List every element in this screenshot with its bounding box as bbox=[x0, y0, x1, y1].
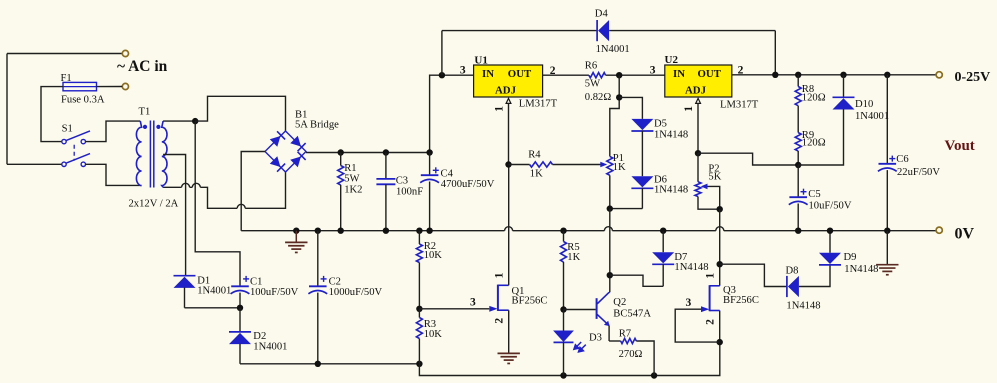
svg-text:R6: R6 bbox=[585, 61, 597, 72]
transformer T1 polarity dot secondary bbox=[156, 125, 160, 129]
bridge rectifier B1 diamond bbox=[265, 131, 306, 172]
svg-text:1N4001: 1N4001 bbox=[855, 111, 889, 122]
svg-text:1N4148: 1N4148 bbox=[654, 185, 688, 196]
junction Q2 base node bbox=[560, 306, 566, 312]
svg-text:4700uF/50V: 4700uF/50V bbox=[441, 179, 495, 190]
junction U1 input / D4 bbox=[439, 72, 445, 78]
svg-text:1K2: 1K2 bbox=[344, 184, 362, 195]
transformer T1 primary winding bbox=[136, 121, 141, 186]
junction D5 branch bbox=[616, 94, 622, 100]
svg-text:OUT: OUT bbox=[508, 68, 532, 80]
svg-text:120Ω: 120Ω bbox=[802, 138, 826, 149]
switch S1 linkage dashed bbox=[73, 145, 75, 161]
wire AC2 to bridge bottom bbox=[245, 172, 285, 208]
svg-text:ADJ: ADJ bbox=[685, 85, 707, 97]
LED D3 arrows bbox=[574, 342, 586, 352]
transistor Q1 JFET bbox=[497, 285, 499, 311]
junction R8 top bbox=[795, 72, 801, 78]
wire node down to C1 feed bbox=[195, 121, 240, 286]
svg-text:D8: D8 bbox=[786, 265, 799, 276]
svg-text:U1: U1 bbox=[474, 54, 487, 66]
svg-text:0.82Ω: 0.82Ω bbox=[585, 92, 612, 103]
diode D6 bbox=[631, 176, 653, 187]
svg-text:2: 2 bbox=[704, 319, 716, 325]
svg-text:1: 1 bbox=[493, 272, 505, 278]
svg-text:1N4001: 1N4001 bbox=[197, 286, 231, 297]
transformer T1 secondary winding bbox=[162, 121, 167, 187]
wire U1 input bbox=[442, 74, 474, 76]
svg-text:1K: 1K bbox=[613, 162, 626, 173]
ground near bridge bbox=[293, 228, 299, 234]
wire D1 to C1 node bbox=[185, 307, 241, 309]
svg-text:1000uF/50V: 1000uF/50V bbox=[329, 287, 383, 298]
wire AC live top bbox=[7, 53, 122, 55]
bridge B1 diode top-right bbox=[290, 136, 306, 152]
wire Q3 gate loop bbox=[675, 309, 720, 342]
switch S1 pole1 bbox=[62, 139, 66, 143]
svg-text:1N4148: 1N4148 bbox=[654, 130, 688, 141]
svg-text:5W: 5W bbox=[344, 173, 359, 184]
svg-text:2x12V / 2A: 2x12V / 2A bbox=[129, 198, 179, 209]
transistor Q2 BC547A bbox=[596, 298, 598, 319]
wire fuse left to S1 bbox=[41, 87, 63, 142]
svg-text:BF256C: BF256C bbox=[512, 296, 548, 307]
svg-text:100nF: 100nF bbox=[396, 187, 423, 198]
transformer T1 core bbox=[149, 121, 151, 188]
potentiometer P1 bbox=[607, 156, 613, 175]
svg-text:OUT: OUT bbox=[698, 68, 722, 80]
wire Q3 drain up bbox=[719, 264, 721, 286]
svg-text:IN: IN bbox=[482, 68, 494, 80]
terminal 0-25V bbox=[936, 72, 942, 78]
wire U2 out to 0-25V terminal bbox=[732, 74, 936, 76]
fuse F1 bbox=[63, 82, 97, 90]
svg-text:R1: R1 bbox=[344, 163, 356, 174]
potentiometer P2 bbox=[695, 182, 701, 197]
capacitor C3 bbox=[385, 153, 387, 179]
wire P1 top staircase to R6 node bbox=[610, 97, 619, 156]
svg-text:10uF/50V: 10uF/50V bbox=[809, 200, 852, 211]
wire left vertical AC bbox=[6, 54, 8, 165]
svg-text:C5: C5 bbox=[808, 189, 820, 200]
svg-text:10K: 10K bbox=[424, 329, 443, 340]
svg-text:~ AC in: ~ AC in bbox=[117, 58, 168, 75]
wire ADJ node to P2 bbox=[697, 153, 699, 182]
wire plus rail bbox=[306, 152, 430, 154]
plus sign C6 bbox=[889, 158, 895, 160]
wire Q1 drain up to ADJ node bbox=[508, 165, 510, 286]
svg-text:LM317T: LM317T bbox=[720, 100, 759, 111]
junction C2 top bbox=[315, 228, 321, 234]
junction C6 top bbox=[884, 72, 890, 78]
junction D10 top bbox=[840, 72, 846, 78]
junction C5 bottom bbox=[795, 228, 801, 234]
capacitor C1 bbox=[231, 285, 249, 287]
resistor R3 bbox=[418, 309, 420, 318]
svg-text:5W: 5W bbox=[585, 78, 600, 89]
resistor R1 bbox=[340, 153, 342, 166]
diode D1 bbox=[174, 275, 196, 277]
junction P2 bottom bbox=[717, 206, 723, 212]
svg-text:D5: D5 bbox=[654, 118, 667, 129]
resistor R2 bbox=[418, 231, 420, 244]
wire ADJ node staircase to R9 bottom bbox=[698, 153, 798, 165]
plus sign C2 bbox=[321, 278, 327, 280]
junction C4 top bbox=[426, 149, 432, 155]
junction R1 top bbox=[338, 149, 344, 155]
wire D8 to D9 bbox=[799, 265, 830, 287]
svg-text:Vout: Vout bbox=[945, 138, 975, 154]
wire 0V rail bbox=[241, 230, 504, 232]
resistor R9 bbox=[795, 133, 801, 151]
junction R9 bottom C5 top bbox=[795, 162, 801, 168]
svg-text:C1: C1 bbox=[250, 277, 262, 288]
wire collector node to D7 staircase bbox=[610, 275, 663, 286]
svg-text:1N4148: 1N4148 bbox=[844, 264, 878, 275]
wire AC neutral bottom to S1 bbox=[7, 163, 62, 165]
wire Q1 gate bbox=[419, 308, 489, 310]
wire secondary bottom with hops bbox=[163, 186, 182, 188]
wire D6 bottom to P1 bottom bbox=[610, 208, 643, 210]
svg-text:S1: S1 bbox=[62, 123, 73, 134]
wire D4 left vertical bbox=[441, 31, 443, 76]
diode D8 bbox=[786, 276, 788, 297]
plus sign C5 bbox=[801, 191, 807, 193]
capacitor C4 bbox=[429, 153, 431, 176]
svg-text:5K: 5K bbox=[708, 171, 721, 182]
svg-text:1N4148: 1N4148 bbox=[674, 262, 708, 273]
resistor R4 bbox=[509, 164, 530, 166]
wire S1 pole1 to T1 primary top bbox=[86, 121, 141, 142]
svg-text:10K: 10K bbox=[424, 250, 443, 261]
svg-text:D9: D9 bbox=[844, 252, 857, 263]
wire D4 line right bbox=[609, 30, 775, 32]
svg-text:C4: C4 bbox=[441, 169, 454, 180]
LED D3 bbox=[563, 310, 565, 331]
junction C1 D1 D2 bbox=[237, 305, 243, 311]
wire U1 out to R6 bbox=[543, 74, 589, 76]
terminal AC in bottom bbox=[122, 83, 128, 89]
junction D9 top bbox=[827, 228, 833, 234]
junction Q3 drain node bbox=[717, 261, 723, 267]
junction D3 bottom bbox=[560, 372, 566, 378]
potentiometer P2 wiper arrow bbox=[701, 184, 708, 190]
svg-text:ADJ: ADJ bbox=[495, 85, 517, 97]
svg-text:IN: IN bbox=[673, 68, 685, 80]
wire P2 node down to Q3 bbox=[719, 209, 721, 264]
junction Q1 gate node bbox=[416, 306, 422, 312]
wire Q2 emitter down to R7 bbox=[608, 326, 610, 341]
svg-text:T1: T1 bbox=[139, 107, 151, 118]
svg-text:3: 3 bbox=[650, 65, 656, 77]
junction D7 top bbox=[660, 228, 666, 234]
wire U1 ADJ down bbox=[508, 104, 510, 165]
svg-text:3: 3 bbox=[470, 297, 476, 309]
junction secondary top node bbox=[192, 118, 198, 124]
junction U2 ADJ node bbox=[695, 150, 701, 156]
diode D2 bbox=[239, 308, 241, 332]
op-amp U1 LM317 box bbox=[474, 65, 543, 97]
svg-text:1N4001: 1N4001 bbox=[253, 341, 287, 352]
svg-text:270Ω: 270Ω bbox=[619, 349, 643, 360]
junction C3 top bbox=[383, 149, 389, 155]
diode D7 bbox=[662, 231, 664, 253]
transformer T1 polarity dot primary bbox=[143, 125, 147, 129]
junction Q2 collector node bbox=[607, 272, 613, 278]
svg-text:3: 3 bbox=[686, 297, 692, 309]
wire Q2 collector up bbox=[608, 291, 611, 293]
junction R5 top bbox=[560, 228, 566, 234]
wire secondary centre tap bbox=[163, 155, 186, 276]
bridge B1 diode bottom-left bbox=[270, 156, 286, 172]
svg-text:R4: R4 bbox=[528, 150, 541, 161]
wire plus rail up to U1 input bbox=[430, 75, 442, 152]
svg-text:1: 1 bbox=[683, 106, 695, 112]
wire U2 ADJ down bbox=[697, 104, 699, 154]
junction R1 bottom bbox=[338, 228, 344, 234]
potentiometer P1 wiper arrow bbox=[600, 162, 607, 168]
svg-text:LM317T: LM317T bbox=[519, 99, 558, 110]
wire Q3 node to D8 bbox=[720, 264, 787, 286]
junction R3 bottom bbox=[416, 361, 422, 367]
wire base node to Q2 bbox=[564, 309, 596, 311]
junction R6 right bbox=[616, 72, 622, 78]
svg-text:Fuse 0.3A: Fuse 0.3A bbox=[61, 95, 105, 106]
pin triangle U1 ADJ bbox=[506, 98, 511, 103]
svg-text:D10: D10 bbox=[855, 99, 873, 110]
junction R2 top bbox=[416, 228, 422, 234]
svg-text:BF256C: BF256C bbox=[723, 295, 759, 306]
resistor R6 bbox=[589, 73, 606, 78]
capacitor C2 bbox=[317, 231, 319, 287]
wire fuse right to terminal bbox=[97, 86, 123, 88]
wire Q3 source down bbox=[719, 311, 721, 343]
pin triangle U2 ADJ bbox=[696, 98, 701, 103]
resistor R5 bbox=[563, 231, 565, 242]
plus sign C1 bbox=[243, 278, 249, 280]
wire bridge minus down to 0V rail bbox=[241, 152, 265, 231]
wire S1 pole2 to T1 primary bottom bbox=[86, 164, 141, 185]
junction P1 D6 collector node bbox=[607, 205, 613, 211]
junction C6 bottom 0V bbox=[884, 228, 890, 234]
svg-text:2: 2 bbox=[493, 318, 505, 324]
svg-text:C6: C6 bbox=[896, 154, 908, 165]
op-amp U2 LM317 box bbox=[665, 65, 732, 97]
ground at 0V output bbox=[886, 231, 888, 265]
svg-text:D3: D3 bbox=[589, 333, 602, 344]
wire R6 node down bbox=[618, 75, 620, 97]
capacitor C6 bbox=[886, 75, 888, 164]
wire D4 right vertical bbox=[774, 31, 776, 75]
junction C3 bottom bbox=[383, 228, 389, 234]
diode D4 bbox=[596, 20, 598, 41]
terminal 0V output bbox=[936, 227, 942, 233]
svg-text:100uF/50V: 100uF/50V bbox=[250, 287, 299, 298]
svg-text:1: 1 bbox=[704, 273, 716, 279]
wire node to bridge AC1 bbox=[195, 96, 285, 131]
svg-text:D4: D4 bbox=[595, 9, 609, 20]
wire AC2 hop over minus line bbox=[237, 204, 245, 208]
switch S1 pole2 bbox=[62, 162, 66, 166]
diode D5 bbox=[631, 119, 653, 130]
terminal AC in top bbox=[122, 50, 128, 56]
junction U2 out / D4 bbox=[772, 72, 778, 78]
svg-text:1N4001: 1N4001 bbox=[596, 44, 630, 55]
svg-text:120Ω: 120Ω bbox=[802, 92, 826, 103]
svg-text:1: 1 bbox=[493, 106, 505, 112]
capacitor C5 bbox=[797, 165, 799, 197]
wire secondary top to node bbox=[163, 120, 195, 122]
svg-text:0-25V: 0-25V bbox=[955, 70, 991, 85]
wire D4 line bbox=[442, 30, 597, 32]
svg-text:5A Bridge: 5A Bridge bbox=[295, 120, 339, 131]
junction C2 bottom bbox=[315, 361, 321, 367]
svg-text:Q2: Q2 bbox=[613, 297, 626, 308]
junction C4 bottom bbox=[426, 228, 432, 234]
junction Q3 source gate node bbox=[717, 339, 723, 345]
svg-text:F1: F1 bbox=[61, 73, 72, 84]
svg-text:1K: 1K bbox=[530, 168, 543, 179]
diode D10 bbox=[843, 75, 845, 98]
svg-text:C3: C3 bbox=[396, 176, 408, 187]
wire collector node down to Q2 bbox=[609, 209, 611, 276]
svg-text:1N4148: 1N4148 bbox=[786, 301, 820, 312]
bridge B1 diode top-left bbox=[270, 131, 286, 147]
wire bottom rail left bbox=[240, 363, 419, 365]
transistor Q3 JFET bbox=[709, 285, 711, 311]
resistor R7 bbox=[609, 340, 621, 342]
wire to D5 top bbox=[619, 97, 642, 119]
svg-text:U2: U2 bbox=[665, 54, 679, 66]
bridge B1 diode bottom-right bbox=[290, 152, 306, 168]
svg-text:C2: C2 bbox=[329, 277, 341, 288]
junction R7 bottom bbox=[651, 372, 657, 378]
svg-text:1K: 1K bbox=[567, 252, 580, 263]
wire Q1 source down bbox=[508, 310, 510, 353]
wire bottom rail jog bbox=[419, 342, 719, 375]
wire P2 wiper bbox=[708, 186, 720, 209]
svg-text:R7: R7 bbox=[619, 329, 631, 340]
ground below Q1 bbox=[498, 352, 520, 354]
svg-text:BC547A: BC547A bbox=[613, 309, 651, 320]
diode D9 bbox=[829, 231, 831, 253]
svg-text:22uF/50V: 22uF/50V bbox=[897, 167, 940, 178]
svg-text:0V: 0V bbox=[955, 226, 975, 243]
junction ADJ R4 node bbox=[505, 161, 511, 167]
plus sign C4 bbox=[433, 169, 439, 171]
resistor R8 bbox=[797, 75, 799, 87]
